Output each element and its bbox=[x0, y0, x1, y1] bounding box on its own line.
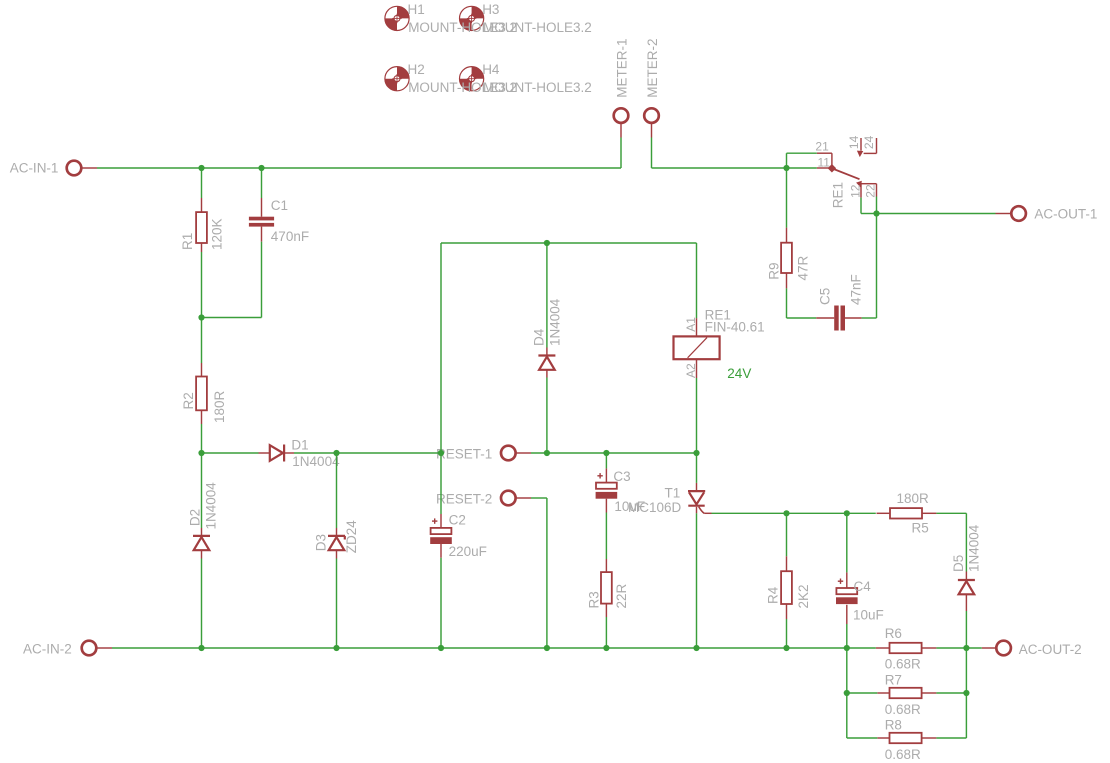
svg-text:R5: R5 bbox=[912, 521, 929, 536]
wire R9 to C5 row bbox=[786, 288, 788, 318]
junction rail R3 bbox=[603, 645, 609, 651]
junction R2-D1 bbox=[198, 450, 204, 456]
wire C4 to rail bbox=[846, 624, 848, 648]
svg-text:D5: D5 bbox=[951, 555, 966, 572]
wire T1 cathode to rail bbox=[696, 513, 698, 648]
wire R9 to C5 left bbox=[787, 317, 817, 319]
svg-text:RESET-1: RESET-1 bbox=[436, 446, 492, 461]
svg-text:A1: A1 bbox=[684, 317, 698, 332]
svg-text:R7: R7 bbox=[885, 673, 902, 688]
svg-text:1N4004: 1N4004 bbox=[204, 482, 219, 530]
junction rail RESET-2 bbox=[544, 645, 550, 651]
pad RESET-1 bbox=[516, 452, 531, 454]
resistor R9 47R bbox=[781, 243, 792, 273]
pins of D3 bbox=[336, 528, 338, 536]
svg-text:R6: R6 bbox=[885, 626, 902, 641]
pins of R3 bbox=[605, 559, 607, 572]
wire R7 left bbox=[847, 692, 878, 694]
svg-text:R8: R8 bbox=[885, 718, 902, 733]
svg-text:10uF: 10uF bbox=[853, 608, 884, 623]
wire stub at contact 21 bbox=[786, 153, 788, 168]
wire METER-2 to relay contact 11 bbox=[652, 167, 817, 169]
svg-text:12: 12 bbox=[848, 184, 862, 198]
wire down to D5 bbox=[965, 513, 967, 571]
wire RESET-2 to rail bbox=[546, 498, 548, 648]
svg-text:24: 24 bbox=[862, 135, 876, 149]
svg-text:11: 11 bbox=[818, 155, 831, 169]
wire contact node to R9 bbox=[786, 168, 788, 228]
wire AC-IN-1 to C1 bbox=[261, 168, 263, 198]
wire R1 to R2 bbox=[201, 252, 203, 363]
svg-text:T1: T1 bbox=[665, 486, 681, 501]
relay coil RE1 FIN-40.61 bbox=[674, 336, 720, 359]
svg-text:180R: 180R bbox=[897, 491, 930, 506]
pins of C3 bbox=[605, 468, 607, 482]
zener diode D3 ZD24 bbox=[328, 536, 345, 550]
svg-text:RE1: RE1 bbox=[830, 182, 845, 208]
resistor R1 120K bbox=[196, 212, 207, 243]
wire top to D4 cathode bbox=[546, 243, 548, 348]
svg-text:22R: 22R bbox=[614, 583, 629, 608]
wire T1 gate row bbox=[712, 512, 876, 514]
resistor R8 0.68R bbox=[890, 733, 922, 743]
wire left shunt column bbox=[846, 648, 848, 738]
pins of C1 bbox=[261, 198, 263, 217]
svg-text:0.68R: 0.68R bbox=[885, 702, 921, 717]
pins of R1 bbox=[201, 198, 203, 212]
svg-text:470nF: 470nF bbox=[271, 229, 309, 244]
pins of R7 bbox=[877, 692, 889, 694]
junction C3 top bbox=[603, 450, 609, 456]
wire C5 right bbox=[862, 317, 877, 319]
svg-text:C4: C4 bbox=[854, 579, 872, 594]
junction R1 at AC-IN-1 bbox=[198, 165, 204, 171]
junction R1-C1 bbox=[198, 314, 204, 320]
pins of T1 bbox=[696, 483, 698, 491]
svg-text:METER-1: METER-1 bbox=[614, 39, 629, 98]
svg-text:D1: D1 bbox=[291, 438, 308, 453]
wire contact 12 down bbox=[860, 198, 862, 214]
diode D4 1N4004 bbox=[538, 356, 555, 370]
wire C3 to R3 bbox=[605, 513, 607, 560]
relay contact RE1 pin 14 with arrowhead bbox=[860, 138, 862, 151]
svg-text:C2: C2 bbox=[449, 513, 466, 528]
diode D1 1N4004 bbox=[270, 445, 284, 462]
wire C2 to rail bbox=[440, 558, 442, 648]
wire R7 right bbox=[936, 692, 966, 694]
wire top horizontal bbox=[441, 242, 697, 244]
svg-text:ZD24: ZD24 bbox=[344, 520, 359, 554]
pad AC-OUT-2 bbox=[982, 647, 997, 649]
junction R7 left bbox=[844, 690, 850, 696]
diode D5 1N4004 bbox=[958, 580, 975, 594]
wire R8 left bbox=[847, 737, 878, 739]
capacitor C5 47nF bbox=[834, 306, 845, 331]
pad METER-2 bbox=[651, 124, 653, 138]
svg-text:24V: 24V bbox=[727, 366, 751, 381]
relay contact RE1 pin 11 bbox=[817, 167, 832, 169]
svg-text:R2: R2 bbox=[181, 392, 196, 409]
wire coil A2 to RESET-1 row bbox=[696, 378, 698, 453]
svg-text:D4: D4 bbox=[532, 328, 547, 346]
wire D5 to rail bbox=[965, 611, 967, 648]
wire RESET-1 row to C3 bbox=[605, 453, 607, 468]
pins of D1 bbox=[259, 452, 270, 454]
junction rail R4 bbox=[783, 645, 789, 651]
wire D1 cathode to RESET-1 node bbox=[294, 452, 441, 454]
svg-text:21: 21 bbox=[815, 139, 829, 153]
wire R5 to D5 column bbox=[936, 512, 966, 514]
wire C1 down bbox=[261, 242, 263, 318]
wire contact 22 down bbox=[876, 197, 878, 214]
resistor R3 22R bbox=[601, 572, 612, 604]
wire vertical x441 top to RESET-1 bbox=[440, 243, 442, 453]
svg-text:AC-OUT-1: AC-OUT-1 bbox=[1034, 207, 1097, 222]
junction D4 top bbox=[544, 240, 550, 246]
resistor R5 180R bbox=[890, 508, 922, 518]
relay contact RE1 pin 24 bbox=[876, 138, 878, 153]
wire down to D3 bbox=[336, 453, 338, 528]
relay contact RE1 pin 12 bbox=[860, 184, 862, 198]
pins of R6 bbox=[876, 647, 890, 649]
pad AC-IN-1 bbox=[82, 167, 98, 169]
svg-text:RESET-2: RESET-2 bbox=[436, 492, 492, 507]
pins of D5 bbox=[965, 572, 967, 581]
svg-text:H3: H3 bbox=[482, 2, 499, 17]
resistor R6 0.68R bbox=[890, 643, 922, 653]
junction relay contact node bbox=[783, 165, 789, 171]
capacitor C4 10uF (electrolytic) bbox=[836, 579, 858, 605]
svg-text:2K2: 2K2 bbox=[796, 584, 811, 608]
junction rail C4 bbox=[844, 645, 850, 651]
wire R3 to rail bbox=[605, 617, 607, 648]
svg-text:A2: A2 bbox=[684, 363, 698, 378]
wire RESET-2 stub bbox=[531, 497, 547, 499]
junction coil A2 - T1 bbox=[693, 450, 699, 456]
wire R8 right bbox=[936, 737, 966, 739]
mount hole H4 bbox=[460, 67, 484, 91]
wire D2 to AC-IN-2 rail bbox=[201, 559, 203, 649]
svg-text:C1: C1 bbox=[271, 198, 288, 213]
junction gate row R4 bbox=[783, 510, 789, 516]
svg-text:1N4004: 1N4004 bbox=[966, 524, 981, 572]
junction gate row C4 bbox=[844, 510, 850, 516]
svg-text:C3: C3 bbox=[613, 469, 630, 484]
wire METER-2 drop bbox=[651, 138, 653, 169]
svg-text:AC-IN-2: AC-IN-2 bbox=[23, 641, 72, 656]
pins of R2 bbox=[201, 363, 203, 377]
svg-text:180R: 180R bbox=[212, 390, 227, 423]
wire R6 to AC-OUT-2 bbox=[936, 647, 981, 649]
pad METER-1 bbox=[620, 124, 622, 138]
junction C1 at AC-IN-1 bbox=[258, 165, 264, 171]
capacitor C1 470nF bbox=[249, 217, 274, 227]
pad RESET-2 bbox=[516, 497, 531, 499]
wire contact 12 to out node bbox=[861, 213, 877, 215]
svg-text:AC-OUT-2: AC-OUT-2 bbox=[1019, 642, 1082, 657]
wire C5 up to AC-OUT-1 node bbox=[876, 214, 878, 319]
svg-text:22: 22 bbox=[864, 184, 878, 198]
wire gate row to R4 bbox=[786, 513, 788, 556]
pins of RE1 coil bbox=[696, 318, 698, 336]
junction rail D5 bbox=[963, 645, 969, 651]
thyristor T1 MC106D bbox=[688, 491, 705, 513]
pins of R4 bbox=[786, 556, 788, 571]
svg-text:R4: R4 bbox=[765, 586, 780, 604]
wire relay coil A1 drop bbox=[696, 243, 698, 318]
wire R2 to D1 node bbox=[201, 424, 203, 453]
pins of R5 bbox=[877, 512, 891, 514]
svg-text:1N4004: 1N4004 bbox=[548, 298, 563, 346]
pins of R9 bbox=[786, 228, 788, 243]
pins of D2 bbox=[201, 528, 203, 536]
wire gate row to C4 bbox=[846, 513, 848, 572]
relay contact RE1 tie 12-22 bbox=[861, 183, 877, 185]
wire down to D2 bbox=[201, 453, 203, 528]
junction rail T1 bbox=[693, 645, 699, 651]
wire AC-IN-1 to R1 bbox=[201, 168, 203, 198]
relay contact RE1 pin 22 bbox=[876, 184, 878, 197]
wire RESET-1 row bbox=[531, 452, 697, 454]
junction rail D2 bbox=[198, 645, 204, 651]
svg-text:METER-2: METER-2 bbox=[645, 39, 660, 98]
wire METER-1 drop bbox=[620, 138, 622, 169]
pins of C5 bbox=[816, 317, 834, 319]
resistor R7 0.68R bbox=[890, 688, 922, 698]
svg-text:D3: D3 bbox=[314, 534, 329, 551]
svg-text:14: 14 bbox=[847, 135, 861, 149]
pins of D4 bbox=[546, 348, 548, 356]
mount hole H1 bbox=[385, 6, 409, 30]
wire C1 to R1 column bbox=[202, 317, 262, 319]
capacitor C3 10uF (electrolytic) bbox=[596, 473, 618, 499]
junction D1-D3 bbox=[333, 450, 339, 456]
diode D2 1N4004 bbox=[193, 536, 210, 550]
svg-text:220uF: 220uF bbox=[449, 544, 487, 559]
svg-text:0.68R: 0.68R bbox=[885, 657, 921, 672]
relay contact RE1 pole tie 11-21 bbox=[831, 153, 833, 168]
wire D1 anode bbox=[202, 452, 259, 454]
junction D4-RESET-1 bbox=[544, 450, 550, 456]
resistor R4 2K2 bbox=[781, 571, 792, 604]
svg-text:R1: R1 bbox=[180, 233, 195, 250]
svg-text:MOUNT-HOLE3.2: MOUNT-HOLE3.2 bbox=[483, 20, 592, 35]
resistor R2 180R bbox=[196, 377, 207, 411]
wire right shunt column bbox=[965, 648, 967, 738]
relay contact RE1 movable arm bbox=[832, 168, 860, 179]
junction rail C2 bbox=[438, 645, 444, 651]
mount hole H3 bbox=[460, 6, 484, 30]
wire D3 to rail bbox=[336, 559, 338, 649]
pad AC-IN-2 bbox=[97, 647, 113, 649]
svg-text:47R: 47R bbox=[796, 255, 811, 280]
svg-text:0.68R: 0.68R bbox=[885, 747, 921, 762]
svg-text:AC-IN-1: AC-IN-1 bbox=[10, 161, 59, 176]
wire to T1 anode bbox=[696, 453, 698, 483]
svg-text:H1: H1 bbox=[408, 2, 425, 17]
svg-text:MC106D: MC106D bbox=[628, 500, 682, 515]
svg-text:C5: C5 bbox=[818, 288, 833, 305]
svg-text:1N4004: 1N4004 bbox=[292, 454, 340, 469]
pins of R8 bbox=[877, 737, 889, 739]
wire to relay contact 21 bbox=[787, 152, 817, 154]
svg-text:R9: R9 bbox=[767, 262, 782, 279]
svg-text:H2: H2 bbox=[408, 62, 425, 77]
svg-text:120K: 120K bbox=[210, 218, 225, 250]
mount hole H2 bbox=[385, 67, 409, 91]
svg-text:47nF: 47nF bbox=[848, 274, 863, 305]
svg-text:MOUNT-HOLE3.2: MOUNT-HOLE3.2 bbox=[483, 80, 592, 95]
junction RESET-1 left bbox=[438, 450, 444, 456]
wire R4 to rail bbox=[786, 619, 788, 648]
junction R7 right bbox=[963, 690, 969, 696]
svg-text:R3: R3 bbox=[587, 591, 602, 608]
wire to AC-OUT-1 bbox=[877, 213, 996, 215]
pins of C4 bbox=[846, 572, 848, 588]
pad AC-OUT-1 bbox=[996, 213, 1012, 215]
wire D4 anode to RESET-1 row bbox=[546, 378, 548, 454]
wire AC-IN-2 rail bbox=[112, 647, 876, 649]
pins of C2 bbox=[440, 514, 442, 528]
svg-text:FIN-40.61: FIN-40.61 bbox=[705, 320, 765, 335]
wire RESET-1 node to C2 bbox=[440, 453, 442, 514]
relay contact RE1 pin 21 bbox=[817, 152, 832, 154]
junction rail D3 bbox=[333, 645, 339, 651]
svg-text:D2: D2 bbox=[188, 509, 203, 526]
svg-text:H4: H4 bbox=[482, 62, 500, 77]
capacitor C2 220uF (electrolytic) bbox=[430, 518, 452, 544]
wire AC-IN-1 to METER-1 bbox=[97, 167, 621, 169]
junction AC-OUT-1 node bbox=[873, 210, 879, 216]
